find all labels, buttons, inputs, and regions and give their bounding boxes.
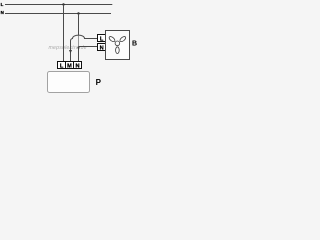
fan box B: [106, 31, 130, 60]
wire V1: L line down to terminal L: [63, 5, 65, 62]
svg-text:mepsolektra.de: mepsolektra.de: [49, 45, 87, 51]
fan symbol: hub circle: [115, 41, 120, 46]
svg-text:L: L: [100, 36, 104, 42]
wire L supply line: [5, 4, 112, 6]
svg-text:M: M: [67, 63, 72, 69]
fan symbol: blade upper-right: [119, 36, 127, 43]
svg-text:L: L: [1, 2, 4, 7]
svg-text:N: N: [75, 63, 79, 69]
terminal box N: [74, 62, 82, 69]
arrowhead on hump wire: [69, 50, 72, 54]
wire H2: branch to fan N terminal: [79, 46, 98, 48]
svg-text:P: P: [96, 78, 102, 87]
background: [0, 0, 140, 96]
arrowhead on V2: [77, 47, 79, 50]
fan terminal box N: [98, 44, 106, 51]
svg-text:N: N: [1, 10, 4, 15]
node junction on N line: [77, 12, 79, 14]
device box P: [48, 72, 90, 93]
wire V2: N line down to terminal N: [78, 14, 80, 36]
wire hump: fan L terminal over V2 down to terminal M: [71, 35, 98, 61]
node junction on L line: [62, 3, 64, 5]
svg-text:B: B: [132, 41, 137, 48]
svg-text:L: L: [60, 63, 64, 69]
terminal box M: [66, 62, 74, 69]
fan symbol: blade bottom: [116, 47, 120, 54]
svg-text:N: N: [100, 45, 104, 51]
fan symbol: blade upper-left: [108, 36, 116, 43]
terminal box L: [58, 62, 66, 69]
fan terminal box L: [98, 35, 106, 42]
wire N supply line: [5, 13, 111, 15]
